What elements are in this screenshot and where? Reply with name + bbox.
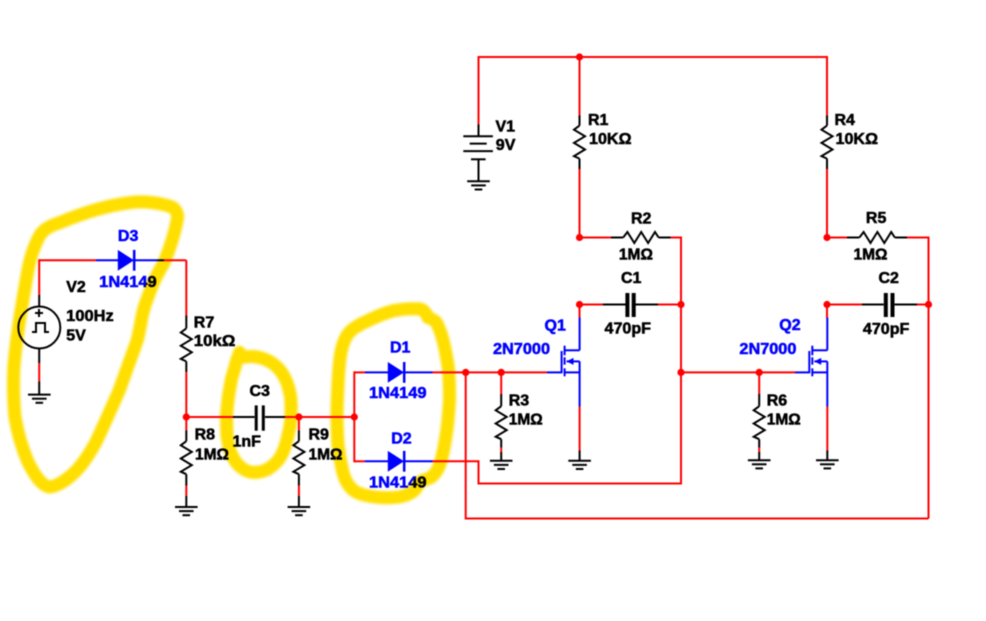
wire V2 bottom	[38, 363, 40, 382]
diode D3	[96, 250, 164, 271]
resistor R9	[293, 417, 304, 507]
wire Q1 gate row	[466, 371, 547, 373]
wire Q2 source red	[826, 407, 828, 451]
svg-text:1MΩ: 1MΩ	[854, 247, 888, 264]
wire Q1 source red	[579, 407, 581, 451]
resistor R2	[611, 232, 671, 243]
svg-text:V1: V1	[496, 119, 516, 136]
svg-text:470pF: 470pF	[863, 321, 910, 338]
node R9 top tee	[295, 413, 302, 420]
wire D1-D2 left vertical	[353, 371, 355, 462]
svg-text:10KΩ: 10KΩ	[836, 131, 879, 148]
wire right rail x681	[680, 237, 682, 485]
svg-text:R5: R5	[866, 210, 887, 227]
wire feedback Q1 drain to D2 horizontal	[479, 483, 682, 485]
diode D1	[365, 362, 433, 383]
svg-text:2N7000: 2N7000	[739, 341, 796, 358]
capacitor C1	[603, 293, 658, 317]
svg-text:R4: R4	[835, 112, 856, 129]
resistor R3	[496, 372, 507, 460]
wire Q2 gate row	[681, 371, 795, 373]
wire feedback Q1 drain to D2 vertical	[478, 461, 480, 484]
wire D1 row right	[433, 371, 466, 373]
wire R4 bottom	[826, 169, 828, 238]
wire D3 row right	[164, 259, 186, 261]
node R7 R8 C3 tee	[183, 413, 190, 420]
highlighter loop around D1 D2	[337, 309, 450, 498]
node R3 top tee	[498, 369, 505, 376]
svg-text:5V: 5V	[66, 328, 86, 345]
wire C2 row right	[917, 304, 929, 306]
svg-text:V2: V2	[66, 279, 86, 296]
svg-text:2N7000: 2N7000	[493, 341, 550, 358]
svg-text:R2: R2	[631, 211, 652, 228]
diode D2	[365, 451, 433, 472]
wire C1 row right	[658, 304, 681, 306]
ground Q1 source	[568, 461, 591, 469]
svg-text:D3: D3	[118, 228, 139, 245]
svg-text:1MΩ: 1MΩ	[767, 412, 801, 429]
svg-text:R1: R1	[588, 112, 609, 129]
node top rail to R1	[576, 53, 583, 60]
svg-text:R6: R6	[767, 393, 788, 410]
svg-text:9V: 9V	[496, 137, 516, 154]
svg-text:1MΩ: 1MΩ	[509, 412, 543, 429]
wire Q2 source black stub	[826, 451, 828, 461]
wire D3 row left	[39, 259, 96, 261]
svg-text:C1: C1	[621, 270, 642, 287]
ground R3	[490, 461, 513, 469]
wire R5 row right	[907, 237, 929, 239]
ground R6	[748, 460, 771, 468]
wire R2 row left	[580, 237, 612, 239]
node C3 right tee	[351, 413, 358, 420]
wire right rail x928	[928, 237, 930, 519]
highlighter tail C3	[238, 353, 240, 360]
svg-text:10kΩ: 10kΩ	[194, 333, 236, 350]
wire Q2 drain red	[826, 305, 828, 319]
svg-text:100Hz: 100Hz	[66, 308, 114, 325]
resistor R8	[181, 417, 192, 507]
capacitor C2	[862, 293, 917, 317]
battery V1	[463, 125, 493, 182]
wire top rail	[479, 56, 828, 58]
node Q2 gate tee	[677, 369, 684, 376]
transistor Q2	[795, 318, 828, 407]
svg-text:R3: R3	[509, 393, 530, 410]
wire R1 bottom	[579, 169, 581, 238]
ground R8	[175, 507, 198, 515]
ground Q2 source	[816, 460, 839, 468]
node C1 right rail	[677, 301, 684, 308]
resistor R4	[822, 116, 833, 170]
wire R7 bottom	[185, 372, 187, 417]
svg-text:D2: D2	[391, 430, 412, 447]
svg-text:470pF: 470pF	[605, 321, 652, 338]
resistor R5	[847, 232, 907, 243]
svg-text:R7: R7	[194, 314, 215, 331]
svg-text:1nF: 1nF	[233, 433, 262, 450]
wire D1 row left stub	[354, 371, 365, 373]
svg-text:C2: C2	[879, 270, 900, 287]
node R6 top tee	[756, 369, 763, 376]
ground R9	[288, 507, 311, 515]
source V2	[18, 295, 60, 363]
svg-text:1MΩ: 1MΩ	[619, 247, 653, 264]
node D1 right feedback tee	[462, 369, 469, 376]
highlighter marks (multiply blend)	[13, 202, 449, 498]
wire D2 row right	[433, 460, 480, 462]
node R4 bottom R5 left	[823, 234, 830, 241]
wire feedback Q2 drain horizontal y518	[466, 518, 929, 520]
highlighter loop around V2 and D3	[13, 202, 177, 487]
highlighter loop around C3	[227, 357, 292, 473]
transistor Q1	[547, 318, 580, 407]
wire R5 row left	[827, 237, 847, 239]
wire D2 row left stub	[354, 460, 365, 462]
ground V1	[467, 181, 490, 189]
wire Q1 drain red	[579, 305, 581, 319]
svg-text:D1: D1	[390, 340, 411, 357]
node C1 left Q1 drain	[576, 301, 583, 308]
node C2 left Q2 drain	[823, 301, 830, 308]
wire C1 row left	[580, 304, 603, 306]
svg-text:R9: R9	[309, 427, 330, 444]
resistor R7	[181, 316, 192, 373]
wire R2 row right	[671, 237, 682, 239]
wire V2 ground stub	[38, 382, 40, 395]
ground V2	[28, 395, 51, 403]
svg-text:10KΩ: 10KΩ	[589, 131, 632, 148]
svg-text:1N4149: 1N4149	[369, 385, 427, 402]
node C2 right rail	[925, 301, 932, 308]
resistor R6	[754, 372, 765, 460]
wire R1 top	[579, 57, 581, 116]
wire C3 row left red	[186, 416, 233, 418]
svg-text:Q2: Q2	[779, 317, 800, 334]
capacitor C3	[233, 405, 285, 430]
wire V1 top drop	[478, 56, 480, 125]
resistor R1	[574, 116, 585, 170]
svg-text:R8: R8	[195, 427, 216, 444]
wire R7 top	[185, 260, 187, 315]
wire Q1 source black stub	[579, 451, 581, 461]
wire R4 top	[826, 56, 828, 116]
wire C3 row right red	[285, 416, 354, 418]
wire feedback Q2 drain vertical x466	[465, 372, 467, 519]
svg-text:C3: C3	[250, 383, 271, 400]
wire V2 top	[38, 259, 40, 295]
wire C2 row left	[827, 304, 862, 306]
svg-text:Q1: Q1	[545, 318, 566, 335]
node R1 bottom R2 left	[576, 234, 583, 241]
